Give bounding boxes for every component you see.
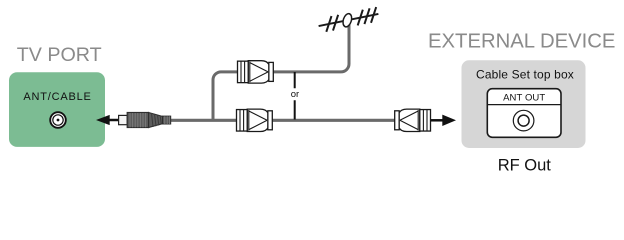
antenna element 4 [362, 8, 373, 24]
plug crimp taper [149, 113, 163, 128]
antenna element 3 [355, 10, 366, 26]
antenna element 1 [323, 16, 334, 32]
lower coax connector (cable feed) [236, 109, 272, 131]
coax cable (main lower run) [171, 119, 395, 122]
antenna element 2 [330, 15, 341, 31]
svg-text:TV PORT: TV PORT [17, 44, 102, 66]
svg-text:ANT OUT: ANT OUT [503, 92, 545, 103]
wire branch up to antenna path [213, 72, 239, 120]
antenna [317, 6, 380, 34]
svg-text:EXTERNAL DEVICE: EXTERNAL DEVICE [428, 30, 615, 52]
svg-text:Cable Set top box: Cable Set top box [476, 68, 574, 82]
plug strain relief [163, 116, 171, 124]
arrow into TV port [96, 115, 119, 125]
ANT OUT coax jack [513, 110, 534, 131]
plug ferrule tip [119, 115, 128, 124]
arrow into external device [431, 115, 457, 126]
external device gray panel [462, 60, 586, 148]
svg-text:or: or [291, 89, 299, 100]
ANT/CABLE coax jack [50, 112, 66, 128]
plug knurled body [127, 113, 148, 128]
coax plug to external device (outline) [395, 109, 431, 131]
ANT OUT port plate [487, 89, 561, 138]
upper coax connector (antenna feed) [237, 61, 273, 83]
coax plug on cable (dark) [119, 113, 171, 128]
port plate divider line [487, 104, 561, 106]
antenna boom [319, 14, 379, 26]
or junction line [294, 72, 296, 120]
svg-text:RF Out: RF Out [498, 157, 552, 175]
svg-text:ANT/CABLE: ANT/CABLE [23, 91, 91, 103]
antenna folded dipole loop [341, 13, 353, 28]
TV port green panel [9, 72, 105, 147]
antenna element 5 [368, 7, 379, 23]
wire from upper connector to antenna mast [273, 20, 350, 72]
